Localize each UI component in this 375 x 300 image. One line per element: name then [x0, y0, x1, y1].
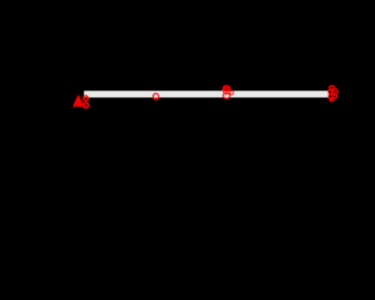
- mug scribble top loop: [223, 86, 229, 90]
- mug scribble second loop: [223, 88, 230, 92]
- balloon nub: [155, 99, 157, 101]
- flower scribble bottom loop: [330, 98, 334, 101]
- flower scribble left loop: [328, 90, 332, 94]
- balloon ring: [153, 94, 158, 99]
- platform bar: [84, 91, 329, 98]
- flower scribble top loop: [329, 86, 334, 90]
- figure-8 top ring: [84, 96, 89, 101]
- mug scribble middle loop: [223, 90, 230, 94]
- flower scribble bottom-right loop: [333, 95, 337, 98]
- figure-8 bottom ring: [83, 103, 88, 108]
- red triangle: [73, 94, 85, 107]
- flower scribble right loop: [333, 89, 337, 94]
- mug handle ring: [230, 91, 234, 95]
- mug scribble bottom loop: [223, 93, 230, 98]
- flower scribble center loop: [331, 92, 334, 95]
- flower scribble bottom-left loop: [329, 94, 333, 98]
